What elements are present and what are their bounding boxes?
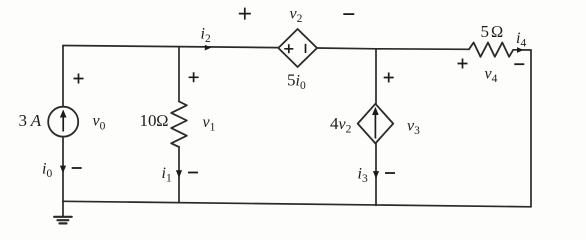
svg-text:10: 10	[140, 111, 157, 130]
svg-text:v3: v3	[407, 118, 420, 138]
svg-text:4v2: 4v2	[330, 114, 352, 136]
svg-text:i0: i0	[42, 161, 52, 181]
svg-text:v0: v0	[93, 113, 106, 133]
svg-text:5: 5	[481, 22, 490, 41]
svg-text:5i0: 5i0	[287, 70, 306, 92]
svg-text:v4: v4	[485, 66, 498, 86]
svg-text:Ω: Ω	[156, 111, 169, 130]
svg-text:i3: i3	[358, 165, 368, 185]
svg-text:i2: i2	[201, 26, 211, 46]
svg-text:i4: i4	[516, 30, 526, 50]
svg-text:i1: i1	[162, 165, 172, 185]
svg-text:3: 3	[19, 111, 28, 130]
svg-text:Ω: Ω	[491, 22, 504, 41]
svg-text:v2: v2	[290, 5, 303, 25]
svg-text:A: A	[30, 111, 42, 130]
svg-text:v1: v1	[203, 114, 216, 134]
